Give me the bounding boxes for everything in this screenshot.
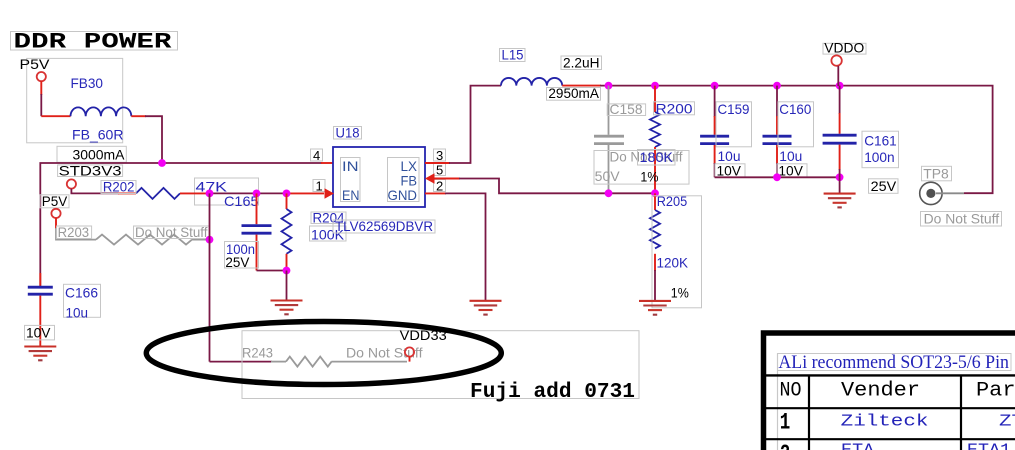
svg-text:IN: IN (342, 158, 359, 174)
junction R200 top (651, 82, 659, 90)
value 10V (25, 324, 55, 340)
annotation ellipse (146, 322, 501, 385)
svg-text:STD3V3: STD3V3 (59, 163, 122, 179)
svg-text:FB_60R: FB_60R (72, 127, 124, 143)
svg-text:DDR POWER: DDR POWER (14, 30, 173, 55)
wire STD3V3 rail (40, 163, 322, 286)
svg-text:EN: EN (342, 187, 360, 203)
wire P5V to R203 (55, 218, 57, 229)
ground (C166) (24, 347, 56, 361)
junction C158 top (605, 82, 613, 90)
svg-text:1: 1 (316, 178, 323, 193)
resistor R243 (Do Not Stuff) (271, 357, 407, 367)
capacitor C160 (763, 86, 792, 178)
junction C165 top (253, 190, 261, 198)
svg-text:GND: GND (388, 187, 418, 203)
svg-text:25V: 25V (871, 178, 897, 194)
svg-text:U18: U18 (336, 124, 360, 140)
svg-text:Vender: Vender (841, 380, 920, 403)
component box FB30 (27, 58, 123, 142)
svg-text:Do Not Stuff: Do Not Stuff (135, 224, 208, 240)
terminal VDDO (823, 40, 866, 66)
svg-text:R202: R202 (103, 179, 135, 195)
capacitor C158 (Do Not Stuff) (594, 86, 624, 194)
svg-text:C166: C166 (65, 284, 98, 300)
ferrite bead FB30 coil (71, 107, 132, 116)
svg-text:10V: 10V (26, 324, 51, 340)
pin 5 stub + wire FB net (434, 178, 460, 180)
svg-text:L15: L15 (502, 46, 524, 62)
value 2950mA (547, 85, 601, 101)
svg-text:50V: 50V (595, 168, 621, 184)
pin 2 stub + wire GND down (425, 192, 446, 194)
svg-text:FB30: FB30 (71, 75, 104, 91)
wire L15 output rail VDDO (562, 85, 601, 87)
junction R203/EN vertical (206, 236, 214, 244)
test point TP8 (Do Not Stuff) (920, 165, 1002, 226)
refdes U18 (334, 124, 362, 140)
value 100n 25V (225, 241, 259, 270)
title DDR POWER (11, 30, 178, 55)
terminal VDD33 (400, 327, 447, 362)
capacitor C166 (28, 273, 53, 346)
value 47K + C165 label box (195, 178, 259, 205)
wire terminal to R202 (71, 189, 119, 194)
svg-text:2.2uH: 2.2uH (563, 54, 600, 70)
svg-text:P5V: P5V (20, 56, 51, 72)
svg-text:R243: R243 (242, 344, 273, 360)
wire P5V to FB30 (40, 81, 42, 95)
wire to ground (286, 271, 288, 301)
svg-text:NO: NO (780, 380, 802, 403)
svg-text:Zilteck: Zilteck (841, 412, 929, 431)
net label STD3V3 (58, 163, 123, 179)
resistor R200 (650, 86, 660, 194)
table (ALi recommend) (764, 333, 1015, 450)
pin 3 stub + wire LX up to L15 (425, 162, 450, 164)
wire VDDO down to rail (837, 66, 839, 86)
wire FB30 output to STD3V3 rail (131, 115, 146, 117)
svg-text:Do Not Stuff: Do Not Stuff (924, 210, 1000, 226)
wire output cap ground rail (715, 176, 840, 178)
svg-text:10V: 10V (778, 162, 803, 178)
svg-text:ETA1: ETA1 (967, 442, 1011, 450)
svg-text:TLV62569DBVR: TLV62569DBVR (335, 218, 433, 234)
svg-text:5: 5 (436, 162, 443, 177)
svg-text:2: 2 (780, 441, 791, 450)
svg-text:2950mA: 2950mA (548, 85, 599, 101)
svg-text:Do Not Stuff: Do Not Stuff (346, 344, 423, 360)
svg-text:R203: R203 (58, 224, 90, 240)
capacitor C159 (700, 86, 729, 178)
svg-text:100n: 100n (864, 149, 895, 165)
svg-text:TP8: TP8 (923, 165, 949, 181)
svg-text:1: 1 (780, 410, 791, 436)
pin number 3 (434, 148, 446, 163)
value 2.2uH (561, 54, 602, 70)
pin number 2 (434, 178, 446, 193)
resistor R203 (Do Not Stuff) (96, 235, 192, 245)
junction C160 top (773, 82, 781, 90)
junction R204 top (283, 190, 291, 198)
value 180K (638, 149, 676, 165)
resistor R204 (282, 193, 292, 270)
terminal STD3V3 (to R202) (67, 179, 76, 188)
wire R202 to EN net (180, 192, 211, 194)
pin 1 arrow (EN) (325, 188, 335, 198)
svg-text:180K: 180K (640, 149, 674, 165)
group box (Fuji add) (242, 331, 639, 399)
value 25V (C161) (869, 178, 899, 194)
svg-text:C159: C159 (718, 101, 750, 117)
svg-text:Par: Par (976, 380, 1015, 403)
inductor L15 coil (501, 78, 562, 86)
terminal P5V (second) (40, 193, 69, 218)
junction FB30/rail (158, 159, 166, 167)
wire C165 bottom to R204 bottom (257, 270, 288, 272)
svg-text:1%: 1% (671, 284, 689, 300)
pin number 5 (434, 162, 446, 177)
value TLV62569DBVR (333, 218, 435, 234)
svg-text:3: 3 (436, 148, 443, 163)
junction C161/VDDO top (836, 82, 844, 90)
value 3000mA (57, 146, 126, 162)
svg-text:120K: 120K (657, 254, 689, 270)
svg-text:2: 2 (436, 178, 443, 193)
capacitor C165 (242, 193, 272, 270)
pin number 4 (311, 148, 323, 163)
junction C165/R204 bottom (283, 267, 291, 275)
wire EN node down to R243 (209, 193, 211, 361)
capacitor C161 (823, 86, 857, 178)
pin number 1 (313, 178, 325, 193)
svg-text:R205: R205 (657, 193, 688, 209)
ground (C165/R204) (271, 301, 303, 315)
wire FB net junctions (605, 189, 613, 197)
svg-text:FB: FB (401, 172, 418, 188)
svg-text:ETA: ETA (841, 442, 875, 450)
svg-text:1%: 1% (640, 169, 658, 185)
resistor R202 (136, 188, 180, 199)
junction 47K (206, 190, 214, 198)
op-amp U18 body (333, 147, 425, 207)
svg-text:C161: C161 (864, 132, 897, 148)
wire EN node to R243 (210, 361, 273, 363)
svg-text:4: 4 (313, 148, 320, 163)
svg-text:10V: 10V (717, 162, 742, 178)
ground (U18 GND) (470, 301, 502, 315)
junction C160 bottom (773, 173, 781, 181)
svg-text:25V: 25V (225, 254, 250, 270)
svg-text:P5V: P5V (42, 193, 68, 209)
ground (C161) (824, 177, 856, 207)
svg-text:C158: C158 (610, 101, 643, 117)
junction C159 top (711, 82, 719, 90)
svg-text:Fuji add 0731: Fuji add 0731 (470, 381, 635, 404)
svg-text:ZT3: ZT3 (999, 412, 1015, 431)
resistor R205 (650, 193, 660, 300)
svg-text:R200: R200 (656, 101, 693, 117)
svg-text:ALi recommend SOT23-5/6 Pin: ALi recommend SOT23-5/6 Pin (778, 352, 1009, 373)
pin 5 arrow (FB) (425, 173, 435, 183)
svg-text:C160: C160 (779, 101, 811, 117)
svg-text:3000mA: 3000mA (73, 147, 126, 163)
svg-text:10u: 10u (66, 304, 89, 320)
ground (R205) (639, 301, 671, 315)
terminal P5V (top-left) (20, 56, 51, 81)
junction C161 bottom (836, 173, 844, 181)
svg-text:VDDO: VDDO (824, 40, 864, 56)
